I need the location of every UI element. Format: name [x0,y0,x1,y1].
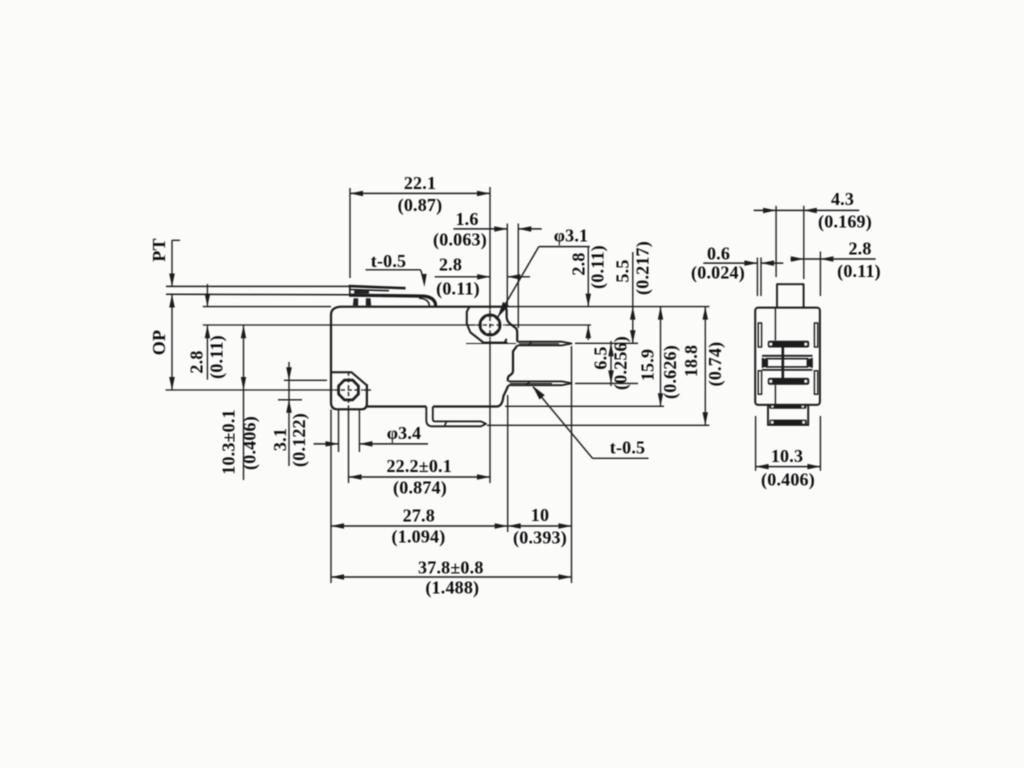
svg-text:(0.122): (0.122) [289,413,310,467]
svg-text:(0.406): (0.406) [761,470,815,491]
svg-text:6.5: 6.5 [591,346,611,369]
svg-text:(0.87): (0.87) [398,195,443,216]
svg-text:10.3±0.1: 10.3±0.1 [219,409,239,474]
svg-text:(0.393): (0.393) [513,528,567,549]
svg-text:2.8: 2.8 [187,350,207,373]
svg-text:(0.256): (0.256) [611,336,632,390]
svg-text:(0.626): (0.626) [660,345,681,399]
svg-text:(0.874): (0.874) [393,478,447,499]
svg-text:(0.11): (0.11) [436,279,480,300]
svg-text:PT: PT [149,238,169,261]
svg-text:22.1: 22.1 [404,173,436,193]
svg-text:15.9: 15.9 [638,349,658,381]
svg-text:(1.488): (1.488) [425,578,479,599]
svg-text:(0.063): (0.063) [433,230,487,251]
svg-text:φ3.4: φ3.4 [387,423,422,443]
svg-text:2.8: 2.8 [439,255,462,275]
svg-text:(0.11): (0.11) [588,245,609,289]
svg-text:(0.024): (0.024) [691,263,745,284]
svg-text:3.1: 3.1 [270,428,290,451]
svg-text:4.3: 4.3 [831,189,854,209]
svg-text:0.6: 0.6 [707,244,730,264]
svg-text:37.8±0.8: 37.8±0.8 [418,557,483,577]
svg-text:2.8: 2.8 [848,239,871,259]
svg-text:(1.094): (1.094) [392,527,446,548]
svg-text:OP: OP [149,330,169,355]
svg-text:t-0.5: t-0.5 [610,438,646,458]
svg-text:1.6: 1.6 [455,209,478,229]
svg-text:18.8: 18.8 [681,345,701,377]
svg-text:5.5: 5.5 [613,259,633,282]
svg-text:10.3: 10.3 [771,446,803,466]
svg-text:10: 10 [531,505,549,525]
svg-text:2.8: 2.8 [569,252,589,275]
svg-text:22.2±0.1: 22.2±0.1 [386,456,451,476]
svg-text:(0.406): (0.406) [240,416,261,470]
svg-text:t-0.5: t-0.5 [371,251,407,271]
svg-text:(0.74): (0.74) [705,342,726,387]
svg-text:(0.217): (0.217) [633,241,654,295]
svg-text:(0.11): (0.11) [207,335,228,379]
svg-text:27.8: 27.8 [403,506,435,526]
svg-text:(0.169): (0.169) [818,212,872,233]
svg-text:(0.11): (0.11) [837,261,881,282]
svg-text:φ3.1: φ3.1 [554,226,589,246]
